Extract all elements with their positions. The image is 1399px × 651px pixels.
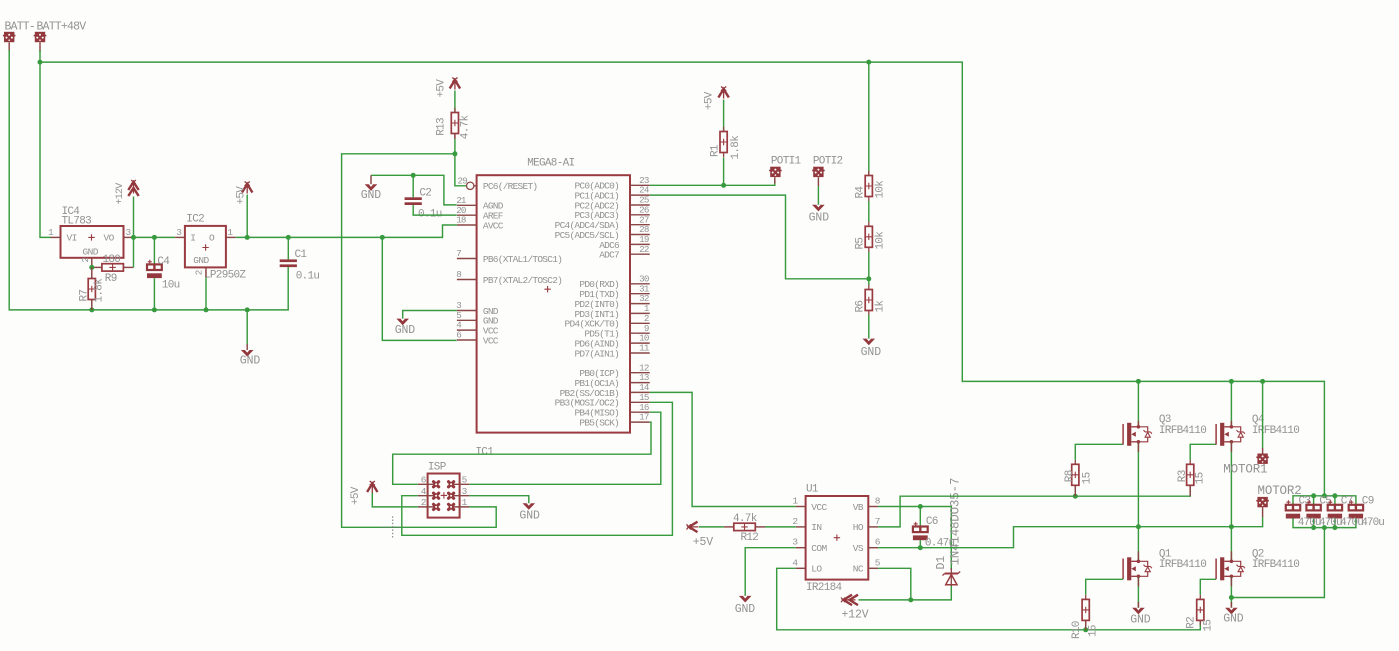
svg-text:4.7k: 4.7k [460, 114, 472, 139]
svg-text:IRFB4110: IRFB4110 [1159, 425, 1206, 437]
wire Q2 source to gnd [1230, 576, 1232, 608]
junction [721, 183, 726, 188]
pin POTI2 [817, 177, 819, 186]
pin 19 MEGA8 ADC6 [630, 243, 650, 245]
svg-text:C2: C2 [419, 187, 431, 199]
pin 10 MEGA8 PD6(AIND) [630, 342, 650, 344]
wire GND pin3 [403, 311, 457, 319]
svg-text:1N4148DO35-7: 1N4148DO35-7 [949, 478, 963, 566]
wire R8 bottom lead [1074, 486, 1076, 497]
wire BATT+ down to IC4 VI [40, 50, 51, 237]
wire C1 top [287, 237, 289, 259]
svg-text:15: 15 [1195, 472, 1207, 484]
svg-text:R5: R5 [854, 238, 866, 250]
ground below R6 [863, 339, 876, 346]
pin 13 MEGA8 PB1(OC1A) [630, 382, 650, 384]
wire COM to gnd [745, 548, 796, 596]
resistor R7 1.8k [91, 274, 93, 304]
pin MOTOR1 [1262, 448, 1264, 454]
svg-text:C9: C9 [1362, 495, 1374, 507]
pin 14 MEGA8 PB2(SS/OC1B) [630, 391, 650, 393]
svg-text:GND: GND [193, 255, 209, 266]
pin 1 IC2 [226, 236, 236, 238]
wire R3 bottom lead [1189, 486, 1191, 497]
supply +12V symbol [128, 182, 138, 190]
resistor R4 10k [868, 171, 870, 201]
wire R3 to Q4 gate [1190, 444, 1216, 460]
svg-text:R10: R10 [1071, 621, 1083, 639]
capacitor C4 10u [147, 264, 162, 270]
svg-text:R6: R6 [854, 301, 866, 313]
pin 1 IC4 [51, 236, 61, 238]
pin 6 MEGA8 VCC [457, 339, 477, 341]
wire cap bank bottom rail [1293, 518, 1356, 528]
wire +12V rail [859, 584, 952, 600]
svg-text:IR2184: IR2184 [806, 582, 843, 594]
wire R4 to R5 [868, 201, 870, 222]
capacitor C5 470u [1306, 505, 1320, 511]
svg-text:GND: GND [83, 247, 99, 258]
svg-text:GND: GND [395, 324, 416, 337]
svg-text:LO: LO [811, 564, 822, 575]
svg-text:VCC: VCC [483, 335, 499, 346]
resistor R3 15 [1189, 460, 1191, 490]
ground at MEGA8 pin3 [396, 319, 409, 326]
junction [1136, 379, 1141, 384]
svg-text:IRFB4110: IRFB4110 [1159, 559, 1206, 571]
R12 right lead [755, 526, 765, 528]
supply +5V arrow at R12 [689, 522, 698, 532]
wire +5V to R1 [723, 100, 725, 132]
svg-text:C1: C1 [295, 249, 308, 261]
wire ISP2 to +5V [372, 493, 418, 507]
svg-text:+5V: +5V [236, 186, 248, 205]
wire Q4 drain [1230, 381, 1232, 426]
pin 7 MEGA8 PB6(XTAL1/TOSC1) [457, 258, 477, 260]
svg-text:180: 180 [103, 254, 121, 266]
wire C5 top lead [1313, 496, 1315, 505]
wire +5V rail [236, 225, 457, 237]
ground at ISP [523, 503, 536, 510]
junction [152, 307, 157, 312]
pin 1 U1 VCC [796, 506, 806, 508]
wire MOSI net pin15 to ISP4 [402, 402, 673, 535]
wire VB net [878, 507, 951, 571]
svg-text:MOTOR1: MOTOR1 [1223, 463, 1267, 477]
svg-text:GND: GND [240, 354, 261, 367]
pin MOTOR2 [1262, 507, 1264, 517]
pin 32 MEGA8 PD2(INT0) [630, 303, 650, 305]
pin BATT- [8, 42, 10, 52]
regulator IC4 TL783 [61, 226, 124, 258]
regulator IC2 LP2950Z [185, 226, 226, 268]
ground at IR2184 [739, 596, 752, 603]
svg-text:470u: 470u [1298, 517, 1321, 529]
junction [1229, 595, 1234, 600]
junction [1083, 627, 1088, 632]
connector ISP header [428, 474, 460, 518]
ground at Q1 [1132, 608, 1145, 615]
svg-text:IRFB4110: IRFB4110 [1252, 559, 1299, 571]
pin BATT+ [39, 42, 41, 52]
svg-text:470u: 470u [1319, 517, 1342, 529]
wire SCK net pin17 to ISP6 [393, 422, 651, 484]
svg-text:GND: GND [361, 189, 382, 202]
supply +5V symbol at IC2 [242, 184, 252, 193]
svg-text:GND: GND [861, 346, 882, 359]
junction [908, 597, 913, 602]
pin 3 U1 COM [796, 547, 806, 549]
junction [286, 235, 291, 240]
wire reset net [455, 139, 466, 186]
junction [866, 60, 871, 65]
svg-text:470u: 470u [1340, 517, 1363, 529]
svg-text:GND: GND [735, 603, 756, 616]
wire HO net [878, 486, 1190, 527]
svg-text:R13: R13 [435, 118, 447, 136]
svg-text:VS: VS [853, 543, 864, 554]
connector MOTOR1 [1257, 454, 1267, 464]
wire +5V arrow stem [246, 195, 248, 238]
svg-text:R3: R3 [1177, 470, 1189, 482]
ground at Q2 [1225, 608, 1238, 615]
pin 29 MEGA8 PC6(/RESET) [474, 185, 477, 187]
junction [866, 276, 871, 281]
resistor R12 4.7k [734, 523, 756, 530]
svg-text:11: 11 [639, 343, 650, 354]
wire R8 to Q3 gate [1075, 444, 1123, 460]
wire C7 bottom lead [1334, 518, 1336, 528]
svg-text:7: 7 [456, 248, 461, 259]
pin 22 MEGA8 ADC7 [630, 253, 650, 255]
svg-text:PD7(AIN1): PD7(AIN1) [574, 348, 619, 359]
svg-text:10k: 10k [875, 231, 887, 250]
junction [1311, 525, 1316, 530]
svg-text:15: 15 [1088, 625, 1100, 637]
junction [1260, 379, 1265, 384]
resistor R5 10k [868, 222, 870, 252]
wire +5V to VCC pin6 [382, 237, 456, 340]
svg-text:R4: R4 [854, 186, 866, 199]
resistor R8 15 [1074, 460, 1076, 490]
R9 right lead [123, 266, 133, 268]
svg-text:IRFB4110: IRFB4110 [1252, 425, 1299, 437]
svg-text:VCC: VCC [811, 502, 827, 513]
junction [380, 235, 385, 240]
supply +5V symbol at R1 [718, 89, 728, 98]
pin 3 IC4 [124, 236, 134, 238]
wire C4 top [153, 237, 155, 264]
wire cap bank top rail [1293, 496, 1356, 505]
wire R5 to R6 [868, 252, 870, 285]
pin 30 MEGA8 PD0(RXD) [630, 283, 650, 285]
pin 4 ISP [418, 495, 436, 497]
wire LO net [777, 568, 1201, 630]
svg-text:1k: 1k [875, 300, 887, 313]
pin 23 MEGA8 PC0(ADC0) [630, 184, 650, 186]
pin 17 MEGA8 PB5(SCK) [630, 421, 650, 423]
R12 left lead [724, 526, 734, 528]
svg-text:PC6(/RESET): PC6(/RESET) [483, 181, 538, 192]
pin 6 ISP [418, 483, 436, 485]
svg-text:R9: R9 [105, 273, 117, 285]
wire Q3 source to Q1 drain [1137, 442, 1139, 562]
pin 5 U1 NC [868, 567, 878, 569]
junction [245, 307, 250, 312]
wire Q1 source to gnd [1137, 576, 1139, 608]
wire ADC0 net [650, 181, 775, 185]
capacitor C6 0.47u [913, 527, 928, 533]
wire POTI2 to gnd [817, 186, 819, 205]
pin 1 ISP [451, 506, 469, 508]
svg-text:0.1u: 0.1u [296, 271, 320, 283]
svg-text:NC: NC [853, 564, 864, 575]
svg-text:7: 7 [875, 516, 880, 527]
junction [152, 235, 157, 240]
svg-text:PB7(XTAL2/TOSC2): PB7(XTAL2/TOSC2) [483, 275, 562, 286]
pin 8 U1 VB [868, 506, 878, 508]
junction [1136, 524, 1141, 529]
wire C6 bottom [919, 540, 921, 548]
supply +5V symbol at ISP [367, 484, 377, 493]
connector BATT+48V pad [35, 32, 45, 42]
wire Q4 source to Q2 drain [1230, 442, 1232, 562]
pin 4 U1 LO [796, 567, 806, 569]
wire VO to +12V arrow [133, 197, 135, 238]
pin 4 MEGA8 VCC [457, 329, 477, 331]
svg-text:VB: VB [853, 502, 864, 513]
origin cross dotted [382, 516, 405, 538]
wire IC4 gnd to R9 [92, 266, 102, 268]
svg-text:ADC7: ADC7 [599, 250, 619, 261]
resistor R10 15 [1085, 595, 1087, 625]
svg-text:VO: VO [104, 232, 115, 243]
wire C4 bottom [153, 278, 155, 310]
svg-text:470u: 470u [1361, 517, 1384, 529]
svg-text:+12V: +12V [115, 183, 126, 205]
wire gnd symbol left [246, 310, 248, 344]
wire cap bank return to gnd [1231, 528, 1324, 598]
wire VS net [878, 517, 1263, 548]
svg-text:VI: VI [67, 232, 77, 243]
pin 1 MEGA8 PD3(INT1) [630, 312, 650, 314]
junction [1332, 493, 1337, 498]
pin 2 U1 IN [796, 526, 806, 528]
junction [1229, 524, 1234, 529]
svg-text:8: 8 [456, 269, 461, 280]
pin 31 MEGA8 PD1(TXD) [630, 293, 650, 295]
R7 bottom lead [91, 300, 93, 310]
svg-text:+5V: +5V [693, 536, 714, 549]
svg-text:C6: C6 [926, 516, 938, 528]
wire AGND net [371, 175, 457, 205]
svg-text:+5V: +5V [436, 79, 448, 98]
wire BATT- to GND rail [9, 50, 288, 310]
capacitor C9 470u [1349, 505, 1363, 511]
supply +5V symbol at R13 [450, 80, 460, 89]
junction [1073, 494, 1078, 499]
svg-text:ISP: ISP [428, 461, 447, 473]
capacitor C7 470u [1328, 505, 1342, 511]
junction [38, 60, 43, 65]
svg-text:U1: U1 [806, 484, 819, 496]
pin 20 MEGA8 AREF [457, 214, 477, 216]
pin 7 U1 HO [868, 526, 878, 528]
junction [204, 307, 209, 312]
resistor R13 4.7k [454, 108, 456, 138]
pin 2 IC2 [205, 267, 207, 277]
svg-text:22: 22 [639, 244, 649, 255]
svg-text:29: 29 [458, 175, 468, 186]
svg-text:PB6(XTAL1/TOSC1): PB6(XTAL1/TOSC1) [483, 254, 562, 265]
junction [1322, 525, 1327, 530]
svg-text:R2: R2 [1185, 617, 1197, 629]
wire R10 to Q1 gate [1086, 579, 1123, 595]
pin 26 MEGA8 PC3(ADC3) [630, 214, 650, 216]
connector POTI1 [770, 167, 780, 177]
svg-text:18: 18 [456, 215, 466, 226]
pin 16 MEGA8 PB4(MISO) [630, 411, 650, 413]
wire R2 to Q2 gate [1200, 579, 1216, 595]
svg-text:R12: R12 [741, 532, 759, 544]
svg-text:10u: 10u [162, 279, 180, 291]
junction [1332, 525, 1337, 530]
R1 bottom wire [723, 158, 725, 186]
pin 18 MEGA8 AVCC [457, 224, 477, 226]
supply +12V arrow [844, 595, 853, 605]
transistor Q4 IRFB4110 [1215, 424, 1217, 445]
junction [89, 265, 94, 270]
capacitor C2 0.1u [405, 197, 422, 200]
ground below IC2 [241, 350, 254, 357]
resistor R6 1k [868, 285, 870, 315]
pin 2 MEGA8 PD4(XCK/T0) [630, 322, 650, 324]
wire ADC1 net [650, 195, 869, 279]
pin 2 IC4 [91, 258, 93, 268]
svg-text:+5V: +5V [704, 91, 716, 110]
svg-text:IC1: IC1 [475, 447, 494, 459]
svg-text:10k: 10k [875, 180, 887, 199]
capacitor C3 470u [1286, 505, 1300, 511]
pin 11 MEGA8 PD7(AIN1) [630, 352, 650, 354]
svg-text:GND: GND [809, 211, 830, 224]
transistor Q2 IRFB4110 [1215, 559, 1217, 580]
junction [1229, 379, 1234, 384]
wire reset loop to ISP [342, 154, 497, 528]
junction [918, 545, 923, 550]
diode D1 1N4148DO35-7 [950, 568, 952, 586]
transistor Q3 IRFB4110 [1122, 424, 1124, 445]
pin 15 MEGA8 PB3(MOSI/OC2) [630, 401, 650, 403]
svg-text:GND: GND [519, 510, 540, 523]
svg-text:+12V: +12V [842, 608, 869, 621]
wire R12 to IN [765, 526, 796, 528]
svg-text:GND: GND [1223, 612, 1244, 625]
svg-text:17: 17 [639, 412, 649, 423]
junction [1311, 493, 1316, 498]
svg-text:COM: COM [811, 543, 827, 554]
resistor R1 1.8k [723, 127, 725, 157]
junction [1322, 493, 1327, 498]
svg-text:R1: R1 [710, 144, 722, 157]
pin 27 MEGA8 PC4(ADC4/SDA) [630, 224, 650, 226]
svg-text:HO: HO [853, 522, 864, 533]
pin 24 MEGA8 PC1(ADC1) [630, 194, 650, 196]
svg-text:IN: IN [811, 522, 821, 533]
wire +5V to R13 [454, 91, 456, 113]
svg-text:1.8k: 1.8k [730, 135, 742, 160]
svg-text:BATT+48V: BATT+48V [37, 20, 87, 33]
connector POTI2 [813, 167, 823, 177]
capacitor C1 0.1u [280, 259, 297, 262]
driver U1 IR2184 [806, 496, 869, 580]
junction [918, 504, 923, 509]
svg-text:+5V: +5V [350, 486, 362, 505]
wire +5V to R12 [699, 526, 724, 528]
svg-text:IC2: IC2 [186, 214, 204, 226]
junction [131, 235, 136, 240]
pin 5 MEGA8 GND [457, 319, 477, 321]
pin 2 ISP [418, 506, 436, 508]
svg-text:4.7k: 4.7k [733, 513, 758, 525]
wire NC to +12V rail [878, 568, 911, 600]
svg-text:15: 15 [1082, 472, 1094, 484]
svg-text:TL783: TL783 [62, 216, 92, 228]
wire C2 top [412, 175, 414, 197]
wire 48V rail [40, 62, 1324, 496]
wire C2 bottom to AREF [413, 205, 457, 215]
svg-text:MEGA8-AI: MEGA8-AI [527, 157, 574, 169]
svg-text:6: 6 [456, 330, 461, 341]
pin 28 MEGA8 PC5(ADC5/SCL) [630, 234, 650, 236]
pin 6 U1 VS [868, 547, 878, 549]
pin 12 MEGA8 PB0(ICP) [630, 372, 650, 374]
pin 3 ISP [451, 495, 469, 497]
resistor R2 15 [1199, 595, 1201, 625]
wire R9 to +12V node [133, 237, 135, 267]
connector MOTOR2 [1257, 497, 1267, 507]
junction [89, 307, 94, 312]
R13 bottom lead [454, 134, 456, 140]
pin 25 MEGA8 PC2(ADC2) [630, 204, 650, 206]
wire R6 to gnd [868, 315, 870, 339]
svg-text:R8: R8 [1064, 470, 1076, 482]
wire R10 bottom lead [1085, 620, 1087, 629]
junction [411, 173, 416, 178]
pin 8 MEGA8 PB7(XTAL2/TOSC2) [457, 279, 477, 281]
wire MOTOR1 to 48V [1262, 381, 1264, 448]
wire C7 top lead [1334, 496, 1336, 505]
svg-text:I: I [190, 232, 195, 243]
pin 9 MEGA8 PD5(T1) [630, 332, 650, 334]
pin 3 IC2 [175, 236, 185, 238]
wire IC2 pin2 to gnd rail [205, 277, 207, 310]
junction [452, 151, 457, 156]
microcontroller IC1 MEGA8-AI [477, 175, 630, 432]
wire C5 bottom lead [1313, 518, 1315, 528]
svg-text:C4: C4 [157, 256, 170, 268]
resistor R9 180 [102, 264, 124, 271]
GND stub [370, 175, 372, 184]
wire MISO net pin16 to ISP5 [469, 412, 660, 484]
wire 48V to R4 [868, 62, 870, 175]
pin 21 MEGA8 AGND [457, 204, 477, 206]
svg-text:POTI1: POTI1 [771, 156, 802, 168]
wire VO to C4/IC2 [134, 236, 176, 238]
svg-text:D1: D1 [935, 556, 948, 570]
svg-text:GND: GND [1130, 613, 1151, 626]
svg-text:R7: R7 [79, 290, 91, 302]
